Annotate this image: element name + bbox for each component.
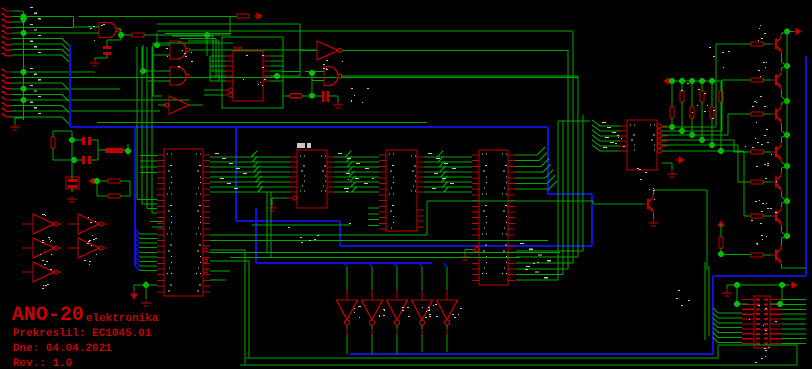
wire collector [781,68,783,71]
wire vertical mesh [142,45,144,71]
wire inv out [189,104,203,106]
vertical x573 [572,31,574,263]
node collector [784,163,790,169]
net route 3 [662,134,692,136]
svg-text:ANO-20: ANO-20 [12,304,84,327]
resistor RB1 [751,42,763,46]
wire bottom y365 [240,364,797,366]
inverter DD4.5 [33,262,54,282]
wire jog [62,55,69,62]
transistor VT2 [775,75,777,86]
node [718,251,724,257]
wire vertical to DD7 [141,47,143,204]
resistor RA6 [720,81,722,91]
bus vertical x548 [547,127,549,194]
vertical x230 [229,16,231,35]
wires DD7 left lower from bus [140,233,158,235]
wire collector [781,34,783,36]
svg-text:elektronika: elektronika [86,313,159,325]
wire [721,254,751,256]
wires DD11 low stubs [368,207,379,209]
DD7 output bubbles [203,248,207,252]
wire rail [786,201,788,236]
wire jog NAND in [73,17,75,28]
wire to ground [15,117,24,119]
node collector [784,63,790,69]
resistor R4 thick [105,148,123,153]
wire rail [786,66,788,101]
wire osc top [53,130,72,132]
wire emitter [781,123,783,131]
vertical x583 [582,115,584,251]
connector XS1 pin 2 [3,14,12,17]
bus vertical left [69,45,71,127]
wire from XS2 pin 3 [12,82,62,84]
inverter labels [46,261,48,262]
capacitor C1 [103,46,111,49]
node collector [784,198,790,204]
resistor RA2 [681,81,683,91]
connector XS1 pin 9 [3,53,12,56]
node [718,148,724,154]
label DD10 [297,143,305,148]
node [69,137,75,143]
wire from XS1 pin 7 [12,43,62,45]
wire stair y38.5 [180,38,216,40]
connector XS1 pin 3 [3,19,12,22]
bus LED taps [344,263,347,267]
inverter labels [88,217,89,218]
resistor RB5 [751,180,763,184]
fan deco DD10-DD11 [345,151,351,157]
wire [120,180,130,182]
node [309,70,315,76]
svg-text:DD6: DD6 [233,46,242,52]
wire emitter [781,53,783,62]
transistor VT4 labels [757,142,759,143]
wire from XS1 pin 2 [12,16,74,18]
inputs DD1.3 [143,70,170,72]
wire from XS1 pin 8 [12,49,62,51]
capacitor C3 [82,156,85,164]
resistor R7 [290,94,302,98]
LED VD1 [337,300,358,320]
wire rail y252 [210,252,560,254]
wire emitter [781,225,783,232]
wire long y33.5 [165,33,230,35]
transistor VT8 [647,199,649,210]
wire y16.7 right [79,16,238,18]
inverter DD4.3 [33,238,54,258]
transistor VT5 [775,177,777,188]
bus horizontal main [70,126,548,128]
wire from XS1 pin 6 [12,38,62,40]
resistor RC1 [720,224,722,237]
DD11 text [389,154,390,155]
pin label specks [101,25,103,26]
capacitor C4 [322,91,325,102]
node [125,148,131,154]
node [699,137,705,143]
wire rail [786,166,788,201]
transistor VT5 labels [756,166,758,167]
connector XS2 pin 2 [3,75,12,78]
connector XS2 pin 1 [3,69,12,72]
bus vertical x256 [255,208,257,263]
wire [71,131,73,140]
input wires DD1.1 [96,32,99,34]
wire vertical to DD7 [136,47,138,200]
bus vertical x135 [134,127,136,266]
wire base [600,203,643,205]
wire jog [62,94,69,101]
wires DD7-DD10 [210,156,290,158]
wire emitter [781,191,783,197]
inverter DD4.4 [78,238,99,258]
node [779,282,785,288]
connector XS1 pin 7 [3,42,12,45]
wire from XS2 pin 7 [12,105,62,107]
LED label [402,307,404,308]
wire bottom y358 [246,357,718,359]
wire [133,285,135,291]
transistor VT6 [775,211,777,222]
label XP1 [755,362,757,363]
resistor RB7b [0,0,1,1]
svg-text:Rev.: 1.0: Rev.: 1.0 [13,358,72,369]
wire vertical to DD7 [146,47,148,209]
net route 1 [662,126,672,128]
wire LED 2 cathode [371,334,373,354]
wires XP1 left bundle [718,312,742,314]
wire [736,285,738,304]
inverter DD2.1 [169,96,189,114]
wire from XS2 pin 6 [12,99,190,101]
resistor R5 [108,179,120,183]
supply arrow up [718,221,724,229]
node [204,32,210,38]
ground C4 [329,95,338,97]
wires DD13 in [600,125,620,127]
rail y81 [666,80,721,82]
wire [96,181,98,196]
net labels [215,153,219,154]
transistor VT3 labels [764,106,766,107]
node [94,178,100,184]
DD7 pin name text [167,154,168,155]
wire C1 [107,39,121,41]
connector XS2 pin 8 [3,108,12,111]
node collector [784,233,790,239]
connector XS1 pin 6 [3,36,12,39]
DD10 text [300,156,301,157]
connector XS2 pin 5 [3,91,12,94]
node DD6 out [274,73,280,79]
transistor VT4 [775,147,777,158]
wires DD10-DD11 [334,156,379,158]
wire [781,285,783,304]
resistor RB4 [751,150,763,154]
wire loop y285 [727,284,789,286]
wire R1 to node [144,34,230,36]
node [140,68,146,74]
wires XP1 right [782,299,806,301]
net route 6 [662,150,721,152]
svg-text:Prekreslil: EC1045.01: Prekreslil: EC1045.01 [13,328,152,340]
vertical x558 [557,121,559,280]
NAND DD3.1 [324,67,338,86]
wire jog [62,117,69,124]
LED VD3 [387,300,408,320]
resistor R6 [108,194,120,198]
resistor RB3 [751,112,763,116]
connector XS1 pin 1 [3,8,12,11]
node collector [784,132,790,138]
connector XS1 pin 5 [3,30,12,33]
bus breakout diagonals to DD7 [135,229,140,234]
transistor VT2 labels [766,62,767,63]
vertical x568 [567,50,569,269]
arrow down [131,291,137,299]
svg-text:Dne: 04.04.2021: Dne: 04.04.2021 [13,343,112,355]
inputs DD1.2 [157,44,170,46]
vertical x578 [577,76,579,257]
IC DD13 [627,120,657,170]
inverter DD4.1 [33,214,54,234]
wire emitter [653,213,655,219]
vertical x563 [562,121,564,275]
wire DD7 out y261 [210,260,249,262]
wire from XS2 pin 5 [12,93,62,95]
connector XP1 body [754,296,770,348]
wire from XS2 pin 8 [12,110,160,112]
wire DD7 out y250 [210,249,245,251]
bus horizontal y276 [713,275,806,277]
vertical feed [206,35,208,56]
inverter DD2.2 [317,41,338,60]
wire gnd stub [726,285,728,289]
crystal ZQ1 [68,179,77,182]
ground crystal [67,196,77,202]
bus horizontal y221 [236,220,340,222]
resistor R2 pull-up [237,14,249,18]
node [309,93,315,99]
supply arrow top [790,31,793,33]
LED VD2 [362,300,383,320]
node [679,128,685,134]
node collector [784,29,790,35]
ground [10,124,20,130]
NAND gate DD1.3 [170,67,186,85]
node [71,157,77,163]
wire inv in [158,104,166,106]
wire jog [62,83,69,90]
wire NAND1 out [118,28,121,30]
supply arrow [789,282,797,288]
capacitor C2 [82,137,85,145]
ground C1 [95,57,107,59]
wire jog [62,44,69,51]
wire [271,198,273,205]
wire [120,195,130,197]
ground DD12 [460,254,470,260]
resistor RA3 [691,81,693,107]
ground VT8 [649,220,659,226]
IC DD10 [297,150,327,208]
node [709,142,715,148]
bus horizontal y194 [548,193,592,195]
connector XS1 pin 8 [3,47,12,50]
ground [722,290,732,296]
transistor VT3 [775,109,777,120]
wire net frame [153,42,233,44]
node [689,132,695,138]
node DD7 bottom [143,282,149,288]
wire emitter last [781,264,783,268]
wire inv2 in [300,50,317,52]
inverter labels [48,237,50,238]
node [154,42,160,48]
NAND gate DD1.2 [170,41,186,59]
wire LED 5 cathode [446,334,448,352]
connector XS2 pin 4 [3,86,12,89]
wire emitter [781,89,783,97]
wires DD7 left mid [140,155,157,157]
supply rail [23,11,25,120]
wire DD10 en [272,197,287,199]
DD12 text [482,154,483,155]
net frame DD6 [222,37,283,108]
wire collector [781,137,783,143]
wire collector [781,103,783,105]
wire along bus [97,122,427,124]
wires DD12 right upper [515,154,537,156]
resistor RA4 [701,81,703,91]
wire [52,156,54,160]
supply arrow [676,157,684,163]
wire rail y240.5 [210,240,548,242]
node [689,78,695,84]
wire rail [786,32,788,67]
connector XS1 pin 4 [3,25,12,28]
wire emitter [781,161,783,162]
vertical feeds [704,262,706,340]
wire vertical to DD7 [151,47,153,213]
node [669,78,675,84]
transistor VT7 labels [757,244,758,245]
connector XS2 pin 9 [3,114,12,117]
wire collector [781,168,783,173]
bus vertical right edge [805,56,807,276]
transistor VT1 [775,39,777,50]
bus horizontal LED y263 [256,262,432,264]
LED label [359,306,361,307]
wire rail y234.8 [210,234,427,236]
wire box [718,344,797,346]
bus vertical x713 [712,276,714,354]
IC DD11 [386,150,417,231]
ground DD13 [667,171,677,177]
connector pin labels [30,7,33,8]
wire collector [653,190,655,195]
resistor RB7 [751,253,763,257]
fan deco DD7-DD10 [251,151,257,157]
resistor R1 [132,33,144,37]
bus vertical x340 [339,221,341,246]
net route 5 [662,144,712,146]
supply arrow [254,13,262,19]
wire from XS1 pin 1 [12,10,23,12]
wire rail y257x [230,257,520,259]
transistor VT1 labels [759,28,760,29]
wire from XS1 pin 5 [12,32,99,34]
LED VD5 [437,300,458,320]
node [777,301,783,307]
node [118,32,124,38]
node collector [784,98,790,104]
connector XS2 pin 6 [3,97,12,100]
wires DD6 bubble pins [204,89,223,91]
resistor R3 [51,137,55,148]
wire [97,140,99,160]
node [709,78,715,84]
transistor VT6 labels [766,203,767,204]
wire LED 3 cathode [396,334,398,354]
fan to DD13 [592,120,600,126]
node [734,301,740,307]
wire [97,180,108,182]
resistor RA1 [671,81,673,107]
IC DD7 [164,149,203,296]
node [699,78,705,84]
resistor RB2 [751,78,763,82]
LED VD4 [412,300,433,320]
supply arrow left [89,178,97,184]
ground DD7 [141,300,151,306]
node [669,124,675,130]
wire jog [62,106,69,113]
IC DD6 [233,51,263,101]
LED label [383,315,385,316]
IC DD12 [479,150,508,285]
wire DD1.2 out [190,49,316,51]
arrow left [664,78,672,84]
node dots on rail [21,14,27,20]
wire [71,160,73,170]
wire y201 [426,201,428,235]
DD13 text [630,125,631,126]
wire from XS2 pin 9 [12,116,62,118]
wire from XS2 pin 1 [12,71,95,73]
bus horizontal bottom y354 [350,353,713,355]
wires DD6 right [270,55,283,57]
wire LED 4 cathode [421,334,423,352]
wire [145,281,147,299]
inverter labels [87,243,89,244]
wire long y31 [157,30,573,32]
NAND gate DD1.1 [99,23,116,38]
bus horizontal y246 [340,245,592,247]
ground DD10 [267,205,277,211]
wire collector [781,203,783,207]
wire from XS2 pin 2 [12,77,578,79]
wire rail [786,135,788,166]
connector XS2 pin 7 [3,103,12,106]
wire from XS2 pin 4 [12,88,120,90]
wire from XS1 pin 3 [12,21,24,23]
wire rail [786,101,788,135]
resistor RA5 [711,81,713,107]
